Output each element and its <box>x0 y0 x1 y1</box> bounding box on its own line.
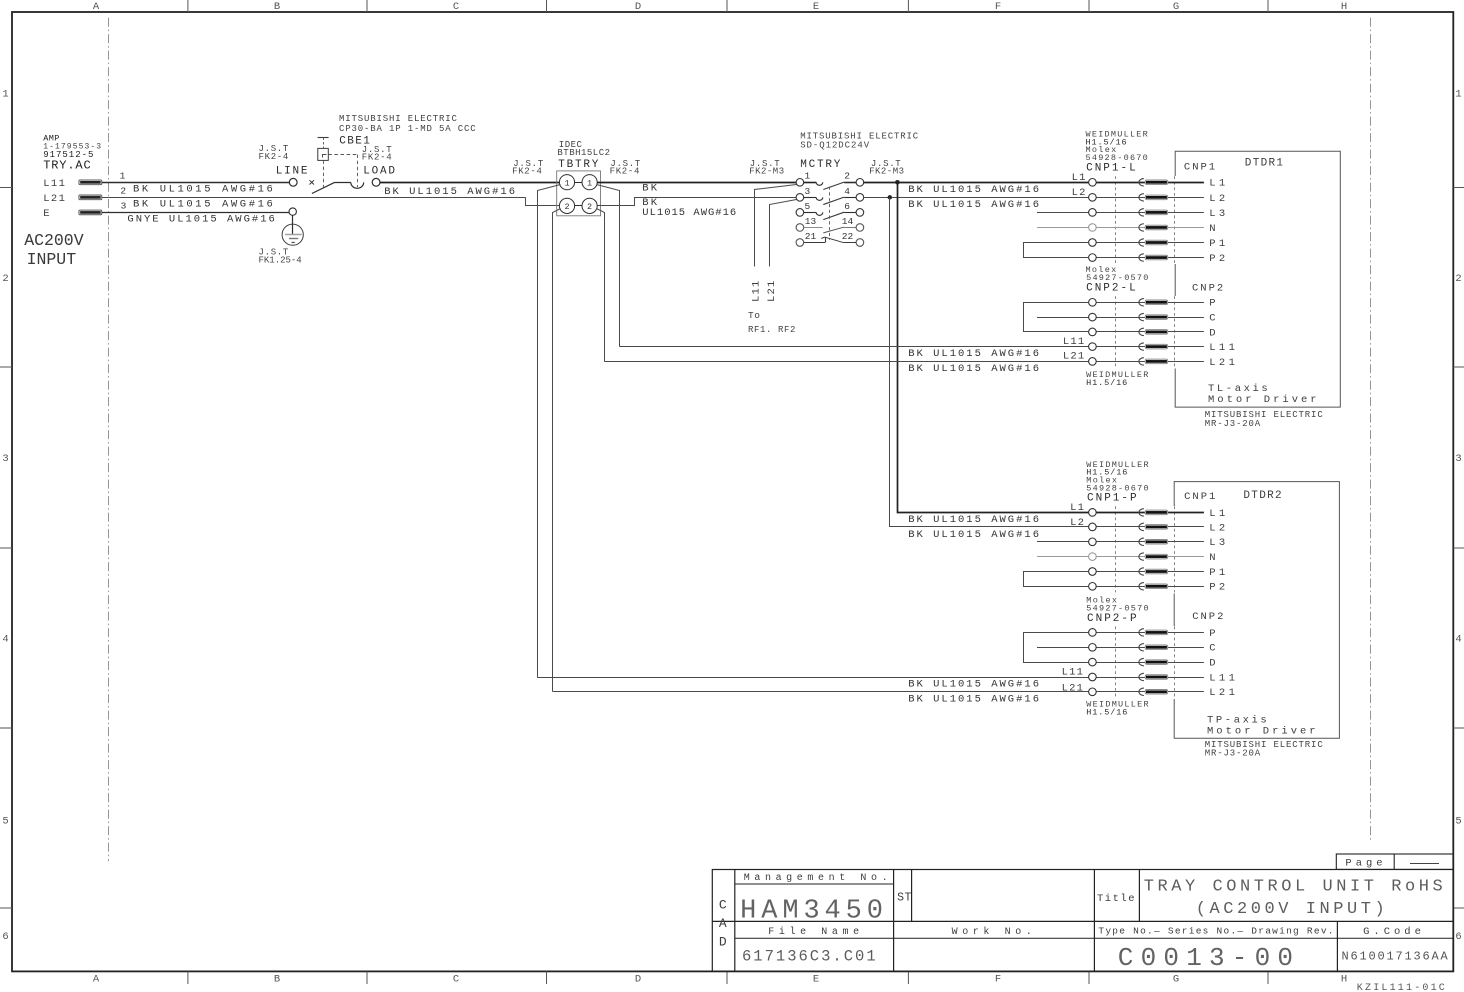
svg-text:L2: L2 <box>1070 517 1085 529</box>
svg-text:TP-axis: TP-axis <box>1207 714 1269 726</box>
svg-text:A: A <box>93 1 100 13</box>
svg-text:6: 6 <box>1455 931 1461 943</box>
svg-text:FK2-4: FK2-4 <box>610 167 641 177</box>
motor driver DTDR1 box <box>1175 151 1340 407</box>
svg-text:1: 1 <box>564 178 569 188</box>
ground terminal circle <box>289 208 296 215</box>
jumper P-D (CNP2-L) <box>1024 303 1089 332</box>
pin CNP2-P L21 <box>1096 691 1204 693</box>
svg-text:G: G <box>1173 974 1179 986</box>
svg-text:FK2-4: FK2-4 <box>259 152 290 162</box>
svg-text:1: 1 <box>805 171 811 182</box>
pin CNP1-L N <box>1037 227 1089 229</box>
wire TBTRY 1 right tap down (to DTDR1 L11) <box>597 185 620 347</box>
svg-text:Management No.: Management No. <box>744 873 892 884</box>
svg-text:D: D <box>635 974 641 986</box>
svg-text:SD-Q12DC24V: SD-Q12DC24V <box>800 141 870 151</box>
jumper P1-P2 (CNP1-P) <box>1024 572 1089 587</box>
svg-text:UL1015 AWG#16: UL1015 AWG#16 <box>642 207 737 219</box>
svg-text:BK UL1015 AWG#16: BK UL1015 AWG#16 <box>908 529 1041 541</box>
terminal ferrule E <box>79 210 102 215</box>
svg-text:L11: L11 <box>1063 336 1086 348</box>
title block <box>712 870 1453 972</box>
svg-text:N610017136AA: N610017136AA <box>1342 950 1450 964</box>
breaker reset bar <box>318 137 329 139</box>
svg-text:L11: L11 <box>1209 672 1238 684</box>
wire L11 to CNP2-L <box>619 346 1088 348</box>
svg-text:G: G <box>1173 1 1179 13</box>
svg-text:3: 3 <box>121 200 127 211</box>
svg-text:Title: Title <box>1097 893 1136 905</box>
pin CNP2-P L11 <box>1096 677 1204 679</box>
svg-text:C: C <box>453 974 459 986</box>
svg-text:L21: L21 <box>43 193 66 205</box>
svg-text:5: 5 <box>2 816 8 828</box>
svg-text:5: 5 <box>805 201 811 212</box>
svg-text:54927-0570: 54927-0570 <box>1086 273 1150 283</box>
pin CNP1-L P2 <box>1096 257 1204 259</box>
junction on L1 wire <box>895 180 900 185</box>
terminal ferrule L21 <box>79 195 102 200</box>
svg-text:TRY.AC: TRY.AC <box>43 159 91 173</box>
svg-text:CNP2: CNP2 <box>1192 283 1225 295</box>
svg-text:L3: L3 <box>1209 537 1228 549</box>
wire MCTRY 2 to CNP1-L L1 <box>864 182 1089 184</box>
svg-text:(AC200V INPUT): (AC200V INPUT) <box>1196 900 1389 919</box>
svg-text:FK2-4: FK2-4 <box>512 167 543 177</box>
svg-text:L2: L2 <box>1209 522 1228 534</box>
wire TBTRY 2 left tap down (to DTDR2 L21) <box>553 209 561 692</box>
svg-text:L21: L21 <box>1063 351 1086 363</box>
contactor MCTRY contact 21-22 <box>796 239 804 247</box>
svg-text:MR-J3-20A: MR-J3-20A <box>1205 419 1261 429</box>
svg-text:6: 6 <box>2 931 8 943</box>
svg-text:CNP2: CNP2 <box>1192 611 1225 623</box>
svg-text:H1.5/16: H1.5/16 <box>1086 707 1128 717</box>
svg-text:L11: L11 <box>1062 667 1085 679</box>
wire MCTRY 4 to CNP1-L L2 <box>864 197 1089 199</box>
svg-text:L1: L1 <box>1209 508 1228 520</box>
motor driver DTDR2 box <box>1174 482 1339 739</box>
svg-text:TRAY CONTROL UNIT RoHS: TRAY CONTROL UNIT RoHS <box>1144 878 1447 897</box>
svg-text:G.Code: G.Code <box>1363 926 1425 938</box>
svg-text:4: 4 <box>2 634 8 646</box>
svg-text:D: D <box>1209 327 1219 339</box>
contactor MCTRY contact 5-6 <box>796 209 804 217</box>
pin CNP2-P D <box>1096 662 1204 664</box>
svg-text:KZIL111-01C: KZIL111-01C <box>1357 983 1447 992</box>
svg-text:617136C3.C01: 617136C3.C01 <box>742 947 878 965</box>
svg-text:RF1. RF2: RF1. RF2 <box>748 325 796 335</box>
svg-text:E: E <box>813 974 819 986</box>
junction on L2 wire <box>888 195 892 199</box>
svg-text:Work No.: Work No. <box>952 926 1037 938</box>
pin CNP1-L L2 <box>1096 197 1204 199</box>
wire L21 to CNP2-L <box>604 361 1088 363</box>
svg-text:L11: L11 <box>43 178 66 190</box>
svg-text:MR-J3-20A: MR-J3-20A <box>1205 748 1261 758</box>
svg-text:1: 1 <box>1455 89 1461 101</box>
terminal ferrule L11 <box>79 180 102 185</box>
svg-text:L21: L21 <box>766 279 778 302</box>
svg-text:5: 5 <box>1455 816 1461 828</box>
svg-text:FK2-M3: FK2-M3 <box>869 166 904 176</box>
svg-text:A: A <box>93 974 100 986</box>
svg-text:BK UL1015 AWG#16: BK UL1015 AWG#16 <box>908 348 1041 360</box>
svg-text:P: P <box>1209 298 1219 310</box>
svg-text:L21: L21 <box>1062 682 1085 694</box>
pin CNP1-L L3 <box>1037 212 1089 214</box>
wire E input <box>102 212 293 214</box>
svg-text:3: 3 <box>805 186 811 197</box>
breaker blade <box>312 182 335 193</box>
svg-text:GNYE UL1015 AWG#16: GNYE UL1015 AWG#16 <box>127 214 276 226</box>
svg-text:E: E <box>43 208 51 220</box>
breaker fixed contact x <box>310 180 315 184</box>
connector boundary dashed lines CNP1-L <box>1115 176 1117 264</box>
breaker CBE1 operator box <box>318 148 329 160</box>
pin CNP2-L C <box>1037 317 1089 319</box>
connector boundary dashed lines CNP2-P <box>1115 626 1117 697</box>
svg-text:4: 4 <box>1455 634 1461 646</box>
wire junction down to DTDR2 L1 <box>898 183 1089 513</box>
svg-text:4: 4 <box>844 186 850 197</box>
svg-text:F: F <box>995 974 1001 986</box>
svg-text:BK UL1015 AWG#16: BK UL1015 AWG#16 <box>908 514 1041 526</box>
svg-text:B: B <box>274 974 280 986</box>
wire L21 step down to TBTRY 2 <box>526 198 560 206</box>
left unit partition dash-dot line <box>108 18 110 862</box>
svg-text:CNP1: CNP1 <box>1184 162 1217 174</box>
svg-text:P1: P1 <box>1209 238 1228 250</box>
svg-text:F: F <box>995 1 1001 13</box>
jumper P1-P2 (CNP1-L) <box>1024 243 1089 258</box>
wire L21 to CNP2-P <box>553 691 1089 693</box>
pin CNP1-P L1 <box>1096 512 1204 514</box>
page box <box>1336 854 1453 869</box>
pin CNP1-P N <box>1037 556 1089 558</box>
TBTRY terminal 2 circles <box>575 205 582 207</box>
wire TBTRY 1 to MCTRY 1 <box>597 182 796 184</box>
pin CNP1-L L1 <box>1096 182 1204 184</box>
MCTRY coil tap L11 <box>755 185 797 267</box>
svg-text:TBTRY: TBTRY <box>558 159 600 171</box>
svg-text:ST: ST <box>897 892 912 905</box>
pin CNP2-L D <box>1096 331 1204 333</box>
connector boundary dashed lines CNP2-L <box>1115 296 1117 367</box>
svg-text:L21: L21 <box>1209 357 1238 369</box>
svg-text:MITSUBISHI ELECTRIC: MITSUBISHI ELECTRIC <box>339 114 458 124</box>
TBTRY terminal 1 circles <box>575 182 582 184</box>
pin CNP2-L P <box>1096 302 1204 304</box>
svg-text:BK UL1015 AWG#16: BK UL1015 AWG#16 <box>133 199 275 211</box>
svg-text:2: 2 <box>2 273 8 285</box>
svg-text:P: P <box>1209 628 1219 640</box>
svg-text:L1: L1 <box>1209 178 1228 190</box>
wire L11 input <box>102 182 289 184</box>
svg-text:File Name: File Name <box>768 926 863 938</box>
svg-text:1: 1 <box>2 89 8 101</box>
pin CNP1-P L2 <box>1096 526 1204 528</box>
svg-text:B: B <box>274 1 280 13</box>
svg-text:N: N <box>1209 552 1219 564</box>
pin CNP2-L L21 <box>1096 361 1204 363</box>
svg-text:DTDR2: DTDR2 <box>1243 490 1283 502</box>
breaker linkage dashed <box>323 160 325 187</box>
svg-text:54928-0670: 54928-0670 <box>1086 153 1150 163</box>
svg-text:E: E <box>813 1 819 13</box>
breaker LOAD terminal <box>372 178 380 186</box>
protective earth symbol <box>292 215 294 234</box>
wire TBTRY 1 left tap down (to DTDR2 L11) <box>538 185 561 678</box>
svg-text:L21: L21 <box>1209 687 1238 699</box>
svg-text:3: 3 <box>2 453 8 465</box>
svg-text:To: To <box>748 310 760 321</box>
svg-text:CNP1-L: CNP1-L <box>1086 163 1138 175</box>
svg-text:C: C <box>453 1 459 13</box>
svg-text:LOAD: LOAD <box>363 165 397 177</box>
svg-text:L1: L1 <box>1070 502 1085 514</box>
svg-text:BK: BK <box>642 183 659 195</box>
svg-text:H1.5/16: H1.5/16 <box>1086 378 1128 388</box>
svg-text:D: D <box>1209 658 1219 670</box>
pin CNP1-P P2 <box>1096 586 1204 588</box>
pin CNP1-P P1 <box>1096 571 1204 573</box>
svg-text:Page: Page <box>1345 858 1386 870</box>
svg-text:L1: L1 <box>1072 172 1087 184</box>
svg-text:BK UL1015 AWG#16: BK UL1015 AWG#16 <box>908 184 1041 196</box>
svg-text:13: 13 <box>805 216 817 227</box>
svg-text:BTBH15LC2: BTBH15LC2 <box>557 148 610 158</box>
svg-text:BK UL1015 AWG#16: BK UL1015 AWG#16 <box>908 363 1041 375</box>
svg-text:2: 2 <box>1455 273 1461 285</box>
page number dash <box>1410 863 1439 865</box>
svg-text:Motor Driver: Motor Driver <box>1207 726 1319 738</box>
pin CNP1-L P1 <box>1096 242 1204 244</box>
svg-text:BK UL1015 AWG#16: BK UL1015 AWG#16 <box>908 694 1041 706</box>
pin CNP2-P C <box>1037 647 1089 649</box>
svg-text:C: C <box>1209 313 1219 325</box>
svg-text:2: 2 <box>587 202 592 212</box>
jumper P-D (CNP2-P) <box>1024 633 1089 663</box>
svg-text:21: 21 <box>805 231 817 242</box>
svg-text:CNP1: CNP1 <box>1184 491 1217 503</box>
svg-text:P2: P2 <box>1209 253 1228 265</box>
svg-text:2: 2 <box>844 171 850 182</box>
contactor MCTRY contact 3-4 <box>796 194 804 202</box>
svg-text:C: C <box>719 898 727 913</box>
svg-text:FK2-M3: FK2-M3 <box>749 166 784 176</box>
contactor MCTRY contact 13-14 <box>796 224 804 232</box>
connector boundary dashed lines CNP1-P <box>1115 506 1117 592</box>
svg-text:14: 14 <box>842 216 854 227</box>
wire L11 to CNP2-P <box>537 677 1088 679</box>
svg-text:P2: P2 <box>1209 582 1228 594</box>
breaker LINE terminal <box>289 178 297 186</box>
svg-text:H: H <box>1341 1 1347 13</box>
svg-text:LINE: LINE <box>276 165 310 177</box>
svg-text:L11: L11 <box>750 279 762 302</box>
svg-text:P1: P1 <box>1209 567 1228 579</box>
svg-text:C: C <box>1209 643 1219 655</box>
pin CNP2-P P <box>1096 632 1204 634</box>
svg-text:Motor Driver: Motor Driver <box>1208 394 1320 406</box>
wire TBTRY 2 right tap down (to DTDR1 L21) <box>597 209 605 362</box>
breaker thermal element <box>351 182 364 188</box>
svg-text:CNP2-L: CNP2-L <box>1086 283 1138 295</box>
svg-text:22: 22 <box>842 231 854 242</box>
svg-text:L2: L2 <box>1209 193 1228 205</box>
MCTRY linkage dashed line <box>829 187 831 240</box>
svg-text:BK UL1015 AWG#16: BK UL1015 AWG#16 <box>908 199 1041 211</box>
MCTRY coil tap L21 <box>770 200 797 267</box>
svg-text:CP30-BA 1P 1-MD 5A CCC: CP30-BA 1P 1-MD 5A CCC <box>339 124 477 134</box>
svg-text:1: 1 <box>120 170 126 181</box>
pin CNP2-L L11 <box>1096 346 1204 348</box>
svg-text:N: N <box>1209 223 1219 235</box>
svg-text:BK UL1015 AWG#16: BK UL1015 AWG#16 <box>133 184 275 196</box>
svg-text:1: 1 <box>587 178 592 188</box>
svg-text:MCTRY: MCTRY <box>800 159 842 171</box>
svg-text:C0013-00: C0013-00 <box>1118 943 1300 973</box>
wire TBTRY 2 to MCTRY 3 <box>598 198 797 206</box>
svg-text:3: 3 <box>1455 453 1461 465</box>
svg-text:BK UL1015 AWG#16: BK UL1015 AWG#16 <box>908 679 1041 691</box>
svg-text:CNP1-P: CNP1-P <box>1087 493 1139 505</box>
svg-text:2: 2 <box>120 185 126 196</box>
wire L21 input <box>102 197 526 199</box>
pin CNP1-P L3 <box>1037 541 1089 543</box>
svg-text:L2: L2 <box>1072 187 1087 199</box>
svg-text:D: D <box>719 935 727 950</box>
svg-text:6: 6 <box>844 201 850 212</box>
svg-text:BK UL1015 AWG#16: BK UL1015 AWG#16 <box>384 186 517 198</box>
svg-text:L3: L3 <box>1209 208 1228 220</box>
svg-text:DTDR1: DTDR1 <box>1245 157 1285 169</box>
svg-text:Type No.— Series No.— Drawing: Type No.— Series No.— Drawing Rev. <box>1098 925 1334 936</box>
right unit partition dash-dot line <box>1370 18 1372 843</box>
svg-text:D: D <box>635 1 641 13</box>
terminal block TBTRY body <box>557 171 601 216</box>
svg-text:2: 2 <box>564 202 569 212</box>
svg-text:A: A <box>719 916 727 931</box>
wire LOAD to TBTRY 1 <box>380 182 559 184</box>
svg-text:FK1.25-4: FK1.25-4 <box>259 255 302 265</box>
wire junction down to DTDR2 L2 <box>890 198 1089 527</box>
svg-text:AC200V: AC200V <box>24 231 84 250</box>
contactor MCTRY contact 1-2 <box>796 179 804 187</box>
svg-text:H: H <box>1341 974 1347 986</box>
svg-text:L11: L11 <box>1209 342 1238 354</box>
svg-text:INPUT: INPUT <box>27 250 77 269</box>
svg-text:FK2-4: FK2-4 <box>362 153 393 163</box>
svg-text:CNP2-P: CNP2-P <box>1087 613 1139 625</box>
svg-text:HAM3450: HAM3450 <box>740 897 888 927</box>
